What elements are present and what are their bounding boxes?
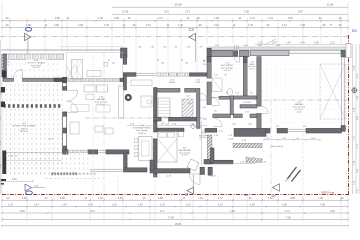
east glazing wall [340,53,342,131]
office north window sills [156,73,169,76]
svg-text:7.08: 7.08 [300,24,305,27]
svg-text:±0.00 mm: ±0.00 mm [8,156,17,158]
dimension line top row1 overall [112,6,348,8]
szoba south wall sill [68,78,120,81]
doors arcs corridor [200,93,207,100]
wc north wall [233,96,256,99]
svg-text:,90: ,90 [188,103,191,105]
axis leader diagonal [265,39,276,44]
north wall right wing segment3 [251,50,290,55]
svg-text:2.30: 2.30 [248,124,252,126]
svg-text:1.40: 1.40 [300,42,305,45]
svg-text:6.70: 6.70 [164,11,169,14]
svg-text:1.82: 1.82 [314,42,319,45]
light dash row below [45,177,100,179]
section marker left blue oval [25,28,31,32]
section marker left triangle [25,33,32,40]
svg-text:1.02: 1.02 [160,204,165,207]
svg-text:7.08: 7.08 [286,216,291,219]
left vertical dim line [0,40,2,194]
bottom blue oval [26,191,33,195]
svg-text:2.10: 2.10 [214,24,219,27]
svg-text:1.10: 1.10 [258,42,263,45]
west wing wall mid blocks [63,128,67,133]
bottom dim row1 [2,199,348,201]
svg-text:4.71: 4.71 [285,210,290,213]
hall west wall vertical mid [207,82,211,105]
svg-text:M1: M1 [276,126,279,128]
bath south wall dark part [219,96,230,99]
north wall right wing segment1 [210,50,233,56]
center wall y114 segC [250,114,257,118]
svg-text:1.10: 1.10 [8,204,13,207]
section axis line C-C [0,36,348,38]
svg-text:1.48: 1.48 [98,17,103,20]
south window left of bedroom [90,168,124,170]
north glazing right [289,49,341,51]
roof opening dashed rect with X [320,64,346,119]
svg-text:,20: ,20 [5,17,9,20]
bottom section marker triangle3 [273,184,280,191]
svg-text:,90: ,90 [250,93,253,95]
bedroom tilted armchair [187,159,199,171]
hall west wall vertical upper [207,57,211,79]
svg-text:-0.47: -0.47 [48,139,54,141]
dim row under right south wall [264,139,320,141]
south wall right segment2 [277,128,288,133]
svg-text:210: 210 [203,64,206,66]
pantry shelves [158,98,170,117]
svg-text:KONYHA-ÉTKEZŐ: KONYHA-ÉTKEZŐ [133,127,151,130]
bath floor dots [212,58,243,96]
dining table [139,137,153,161]
svg-text:,20: ,20 [132,24,136,27]
svg-text:±0.00: ±0.00 [228,139,234,141]
svg-text:±0.00: ±0.00 [197,127,202,129]
eaves line top-left upper [60,46,124,48]
svg-text:,20: ,20 [338,17,342,20]
svg-text:2.88: 2.88 [158,197,163,200]
bedroom1 bed [158,132,178,163]
wc second wall [240,105,257,108]
svg-text:1.90 WC: 1.90 WC [243,102,251,104]
svg-text:,30: ,30 [338,24,342,27]
west wing wall head block [63,77,67,83]
wall y117 kitchen-dining [168,117,197,121]
south wall left piece near hall [205,128,217,132]
svg-text:KÖZL: KÖZL [195,81,201,84]
kitchen north window [136,72,155,74]
nappali tv unit [70,122,79,134]
svg-text:2.47: 2.47 [272,42,277,45]
kitchen door swing [161,118,168,125]
svg-text:90: 90 [108,60,110,62]
nappali south wall west corner [63,150,69,155]
svg-text:±0.00: ±0.00 [297,112,303,114]
svg-text:1.82: 1.82 [112,204,117,207]
svg-text:240: 240 [161,62,164,64]
szoba small furniture [104,62,108,66]
svg-text:,20: ,20 [266,24,270,27]
bottom dim row2 [2,206,348,208]
svg-text:90: 90 [203,61,205,63]
svg-text:+0.02: +0.02 [210,176,216,178]
svg-text:ÁSZNY hrsz: ÁSZNY hrsz [321,192,335,195]
corridor dim line [127,125,207,127]
terrace room label [26,59,47,68]
red boundary horizontal [2,194,349,196]
terrace room interior hatch [7,60,61,79]
dimension line top row3 [2,20,348,22]
svg-text:20.02 m²: 20.02 m² [138,132,146,135]
svg-text:8.02 m²: 8.02 m² [33,66,40,69]
szoba table [87,70,101,76]
toilet [227,88,232,95]
south window right [288,128,307,130]
eaves band right wing [207,47,345,50]
bottom dim extension lines [1,196,3,222]
hall wall lower piece [211,148,215,163]
kitchen west wall vertical [123,75,126,90]
office north wall piers [169,73,178,76]
svg-text:3.87: 3.87 [288,17,293,20]
svg-text:M3: M3 [303,126,306,128]
svg-text:4.00: 4.00 [60,197,65,200]
vertical axis x104 [103,52,105,193]
svg-text:2.17: 2.17 [158,17,163,20]
eaves line top-left [2,49,125,51]
terrace room top sill band [3,54,64,59]
svg-text:1.40: 1.40 [248,24,253,27]
svg-text:20.08: 20.08 [175,3,182,7]
terrace pergola dash row [4,104,6,108]
terrace room left hatched pier [2,55,7,71]
north wall right wing segment2 [240,50,250,56]
svg-text:4.77: 4.77 [218,197,223,200]
nappali double door swing lower [67,101,78,112]
svg-text:2.10: 2.10 [186,204,191,207]
svg-text:2.10: 2.10 [219,131,223,133]
bedroom north wall [157,128,184,131]
section marker mid triangle [189,33,196,40]
south wall bedroom1 [150,169,190,173]
hall west corner block [207,48,211,57]
terrace room south wall dark block [54,78,63,82]
kitchen north wall [123,73,136,77]
bedroom nightstand [179,132,184,137]
kitchen counter west [119,86,124,118]
svg-text:2.10: 2.10 [146,24,151,27]
svg-text:1.98: 1.98 [214,17,219,20]
right-side upper dim texts [255,44,348,46]
svg-text:1.90: 1.90 [232,124,236,126]
nappali double door swing upper [67,90,78,101]
west wing long wall vertical lower [63,112,67,152]
axis dash-dot through house [85,117,207,119]
south dim small line [212,163,255,165]
red boundary vertical [348,35,350,195]
center wall y114 segA [213,114,231,118]
south wall right thick band [234,128,266,136]
upper-left short dim line [1,180,34,182]
svg-text:2.28: 2.28 [282,204,287,207]
kitchen island [141,96,152,107]
svg-text:C3: C3 [189,27,195,32]
svg-text:90: 90 [157,60,159,62]
svg-text:4.80: 4.80 [26,24,31,27]
living room floor dots [262,58,341,128]
terrace room south wall segment1 [3,78,14,81]
svg-text:2.10: 2.10 [202,107,206,109]
svg-text:1.10: 1.10 [98,197,103,200]
svg-text:4.00: 4.00 [12,179,17,181]
hall east long wall vertical [257,57,261,107]
svg-text:SPAJZ: SPAJZ [169,81,176,84]
office west wall vertical [154,88,158,119]
hall hatched wall vertical [207,135,212,160]
nappali sofa group [84,85,95,92]
svg-text:1.40: 1.40 [138,204,143,207]
svg-text:4.77: 4.77 [160,210,165,213]
extension lines to terrace room [9,44,11,54]
svg-text:1.60: 1.60 [230,210,235,213]
svg-text:NYOMOTT VB. TERASZ: NYOMOTT VB. TERASZ [12,125,36,128]
bottom dim row4 [2,218,348,220]
svg-text:7.08: 7.08 [320,204,325,207]
terrace room left wall [3,54,7,81]
shower [212,78,222,92]
south wall kitchen terrace [124,168,148,172]
south wall right segment4 [306,128,342,133]
north facade step pier [121,48,128,58]
svg-text:90: 90 [181,60,183,62]
svg-text:4.80: 4.80 [114,17,119,20]
svg-text:2.38: 2.38 [244,11,249,14]
center wall y114 segB [233,114,242,118]
svg-text:6.10: 6.10 [90,210,95,213]
dining chairs [135,139,138,143]
svg-text:240: 240 [112,62,115,64]
terrace room door swing [14,69,23,78]
svg-text:14.76 m²: 14.76 m² [181,154,188,157]
svg-text:12.08: 12.08 [327,4,334,7]
terrace lower part hatch [2,153,90,175]
svg-text:ablak alsó éle: ablak alsó éle [271,146,284,148]
svg-text:1.07: 1.07 [62,204,67,207]
window sill hatched below south wall [233,143,262,147]
extension lines from top dims [9,18,11,45]
svg-text:,20: ,20 [318,17,322,20]
right vertical dim lines [352,44,354,194]
svg-text:6.26: 6.26 [20,210,25,213]
svg-text:2.47: 2.47 [34,204,39,207]
north wall entrance pier [234,51,238,56]
nappali rug [71,105,89,112]
step wall vertical [123,55,126,64]
svg-text:1.40: 1.40 [178,24,183,27]
svg-text:25.08: 25.08 [175,223,182,226]
entrance door swing [234,57,240,63]
svg-text:N-30: N-30 [258,45,262,47]
ramp diagonal [288,167,297,179]
szoba room outline [67,53,123,80]
svg-text:240: 240 [185,62,188,64]
west wing door jamb upper [63,87,67,91]
svg-text:B3: B3 [352,28,358,33]
svg-text:2.29: 2.29 [78,24,83,27]
svg-text:1.02: 1.02 [203,119,207,121]
dimension line top row2 [112,13,348,15]
east window marker [352,88,357,93]
svg-text:2.10: 2.10 [330,42,335,45]
bedroom west wall vertical [154,121,158,132]
fireplace [125,94,132,101]
svg-text:N-30: N-30 [244,45,248,47]
terrace left black bar [2,151,6,175]
living axis dash-dot [255,99,348,101]
svg-text:1.10: 1.10 [218,204,223,207]
bath south wall thin with door [211,96,233,98]
nappali south window sill [68,150,88,153]
hall wall blocks [204,160,212,165]
south-east corner block [341,126,345,132]
svg-text:2.17: 2.17 [185,11,190,14]
south wall door jamb blocks [200,167,205,174]
svg-text:1.60: 1.60 [268,197,273,200]
svg-text:1.96 m²: 1.96 m² [249,67,255,70]
svg-text:1.47: 1.47 [250,17,255,20]
svg-text:-0.47: -0.47 [166,176,172,178]
svg-text:4.80: 4.80 [54,24,59,27]
svg-text:4.00: 4.00 [118,197,123,200]
svg-text:1.52: 1.52 [186,96,190,98]
terrace mid line [2,160,62,162]
svg-text:8.87: 8.87 [298,11,303,14]
terrace room left black block [2,71,7,78]
west pergola posts [1,87,6,93]
svg-text:1.10: 1.10 [282,24,287,27]
west wing door jamb lower [63,112,67,116]
terrace room south wall segment2 [23,78,55,81]
svg-text:48.60 m²: 48.60 m² [20,130,29,133]
paving band light dashes [79,173,81,175]
bottom section marker triangle1 [25,184,32,191]
svg-text:N-30: N-30 [215,45,219,47]
szoba door swing [67,66,75,81]
svg-text:B: B [184,193,189,196]
nappali armchairs [95,126,103,132]
bottom section marker triangle2 [187,187,194,194]
svg-text:(térkő): (térkő) [21,127,27,130]
svg-text:,20: ,20 [5,24,9,27]
vertical axis x93 [92,55,94,175]
dimension line top row4 [2,27,348,29]
bottom dim row5 [2,225,348,227]
nappali south wall east part [88,150,98,154]
svg-text:m: m [330,24,332,27]
szoba wardrobe [72,60,83,80]
section line drop left [27,37,29,54]
svg-text:,20: ,20 [127,17,131,20]
svg-text:1.07: 1.07 [286,42,291,45]
svg-text:12.08: 12.08 [122,11,129,14]
svg-text:1.40: 1.40 [198,197,203,200]
kitchen counters top [131,80,152,86]
svg-text:+0.00: +0.00 [310,138,316,140]
svg-text:4.80: 4.80 [22,197,27,200]
stairs hatched [182,99,193,117]
south wall bedroom west jog [150,160,155,170]
level mark diamond [191,124,196,129]
bottom dim row3 [2,212,348,214]
living door swing [261,106,268,113]
svg-text:7.08: 7.08 [318,197,323,200]
svg-text:,90: ,90 [214,111,217,113]
svg-text:2.88: 2.88 [290,197,295,200]
nappali side furniture [96,105,110,112]
terrace tiled area [2,82,63,176]
south door swing [190,174,201,185]
bath east wall vertical [243,57,247,99]
corner label box [346,44,351,58]
svg-text:,20: ,20 [196,17,200,20]
svg-text:2.48: 2.48 [330,210,335,213]
extension lines into porch [135,44,137,72]
svg-text:1.60: 1.60 [250,204,255,207]
entrance steps [234,45,236,50]
svg-text:1.40: 1.40 [88,204,93,207]
svg-text:4.80: 4.80 [55,17,60,20]
office south wall [157,88,180,92]
svg-text:N-30: N-30 [276,45,280,47]
north-east corner block [341,50,345,57]
terrace outline [1,82,3,194]
vertical dim strip near bedroom door [201,121,203,165]
benchmark marks bottom-left [1,179,7,181]
vertical axes to boundary [92,175,94,194]
wc west wall vertical [230,96,233,115]
svg-text:1.21: 1.21 [268,17,273,20]
svg-text:,20: ,20 [322,24,326,27]
svg-text:1.70: 1.70 [104,24,109,27]
paving band gray dashes [51,172,53,175]
hall east wall vertical [197,88,200,128]
west wing long wall vertical upper [63,83,67,90]
svg-text:17.68: 17.68 [168,216,175,219]
svg-text:,20: ,20 [198,24,202,27]
